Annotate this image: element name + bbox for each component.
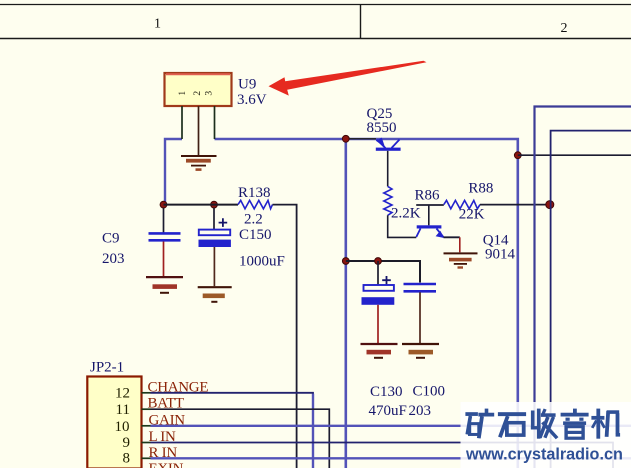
red annotation arrow bbox=[269, 61, 427, 96]
ground under C100 bbox=[402, 344, 439, 358]
U9 pin number 2 (rotated) bbox=[193, 91, 203, 96]
watermark chinese character shi bbox=[498, 412, 526, 437]
svg-text:2: 2 bbox=[193, 91, 203, 96]
svg-text:EXIN: EXIN bbox=[149, 461, 184, 468]
svg-text:C100: C100 bbox=[413, 384, 446, 400]
ground under U9 pin 2 bbox=[181, 156, 217, 171]
Q14 reference label bbox=[483, 233, 509, 249]
wire BATT net bbox=[151, 409, 330, 468]
svg-text:3.6V: 3.6V bbox=[237, 92, 267, 108]
U9 pin 1 lead bbox=[181, 106, 183, 139]
svg-text:U9: U9 bbox=[238, 77, 256, 93]
svg-text:12: 12 bbox=[115, 386, 130, 402]
capacitor C9 plates bbox=[149, 208, 181, 276]
JP2 pin number 11 bbox=[116, 402, 130, 418]
wire: R88 right lead to rail bbox=[480, 204, 551, 206]
wire: U9 pin1 to left rail corner bbox=[165, 139, 182, 203]
capacitor C100 plates bbox=[404, 284, 437, 343]
U9 value label 3.6V bbox=[237, 92, 267, 108]
svg-text:L IN: L IN bbox=[149, 429, 176, 445]
svg-text:R IN: R IN bbox=[149, 445, 178, 461]
svg-text:C150: C150 bbox=[239, 227, 272, 243]
net label CHANGE bbox=[148, 379, 209, 395]
svg-text:1000uF: 1000uF bbox=[239, 254, 285, 270]
Q25 reference label bbox=[367, 106, 393, 122]
C100 value label 203 bbox=[409, 403, 432, 419]
junction dot C150 bbox=[211, 201, 218, 208]
svg-text:203: 203 bbox=[102, 251, 125, 267]
svg-text:2: 2 bbox=[561, 21, 568, 36]
U9 pin 2 lead bbox=[198, 106, 200, 155]
U9 pin 3 lead bbox=[214, 106, 216, 139]
title border top line bbox=[0, 4, 631, 6]
svg-text:9: 9 bbox=[123, 435, 131, 451]
C150 value label 1000uF bbox=[239, 254, 285, 270]
svg-text:470uF: 470uF bbox=[369, 403, 407, 419]
R86 value label 2.2K bbox=[391, 206, 421, 222]
wire: R138 to vertical drop bbox=[273, 205, 297, 468]
C150 reference label bbox=[239, 227, 272, 243]
wire GAIN net bbox=[151, 425, 631, 427]
U9 pin number 3 (rotated) bbox=[205, 91, 215, 96]
svg-text:8: 8 bbox=[123, 450, 131, 466]
U9 reference label bbox=[238, 77, 256, 93]
wire: R88 left lead bbox=[416, 204, 444, 206]
ground under C150 bbox=[198, 287, 232, 302]
C130 reference label bbox=[370, 384, 403, 400]
junction dot on +V rail tap bbox=[514, 152, 521, 159]
ground under Q14 bbox=[444, 253, 478, 268]
JP2 pin number 12 bbox=[115, 386, 130, 402]
svg-text:www.crystalradio.cn: www.crystalradio.cn bbox=[465, 446, 623, 464]
C130 value label 470uF bbox=[369, 403, 407, 419]
svg-text:11: 11 bbox=[116, 402, 130, 418]
R138 value label 2.2 bbox=[244, 212, 263, 228]
svg-text:203: 203 bbox=[409, 403, 432, 419]
wire: vertical rail from Q25 node down bbox=[344, 139, 347, 468]
watermark chinese character ji bbox=[591, 409, 620, 439]
wire: U9 pin3 to right, main +V rail bbox=[215, 139, 518, 468]
junction dot left rail / C9 bbox=[160, 201, 167, 208]
JP2 pin 9 stub bbox=[142, 442, 151, 444]
R88 reference label bbox=[468, 180, 493, 196]
Q25 base lead wire bbox=[387, 151, 389, 187]
wire CHANGE net bbox=[151, 393, 314, 468]
resistor R86 2.2K (vertical zigzag) bbox=[384, 186, 392, 215]
svg-text:2.2: 2.2 bbox=[244, 212, 263, 228]
net label EXIN (clipped) bbox=[149, 461, 184, 468]
net label L IN bbox=[149, 429, 176, 445]
C9 value label 203 bbox=[102, 251, 125, 267]
JP2 pin number 9 bbox=[123, 435, 131, 451]
svg-text:JP2-1: JP2-1 bbox=[90, 360, 124, 376]
R86 reference label bbox=[415, 188, 441, 204]
C100 reference label bbox=[413, 384, 446, 400]
title border bottom line bbox=[0, 38, 631, 40]
JP2 pin 12 stub bbox=[142, 392, 151, 394]
svg-text:C130: C130 bbox=[370, 384, 403, 400]
net label BATT bbox=[148, 396, 184, 412]
svg-text:8550: 8550 bbox=[367, 120, 397, 136]
wire: tap to right edge bbox=[518, 154, 631, 156]
R88 value label 22K bbox=[459, 207, 485, 223]
svg-text:BATT: BATT bbox=[148, 396, 184, 412]
svg-text:C9: C9 bbox=[102, 230, 120, 246]
svg-text:22K: 22K bbox=[459, 207, 485, 223]
svg-text:GAIN: GAIN bbox=[149, 413, 186, 429]
junction on rail at R88 bbox=[546, 201, 554, 209]
JP2 pin number 8 bbox=[123, 450, 131, 466]
transistor Q14 (NPN 9014) bbox=[416, 225, 444, 238]
C9 reference label bbox=[102, 230, 120, 246]
watermark URL text bbox=[465, 446, 623, 464]
zone number 1 bbox=[154, 17, 161, 32]
JP2-1 reference label bbox=[90, 360, 124, 376]
CHANGE vertical drop (thick) bbox=[312, 394, 314, 468]
wire L IN net bbox=[151, 443, 614, 468]
wire: right rail 2 bbox=[535, 107, 631, 468]
wire: R86 bottom to Q14 collector bbox=[388, 215, 417, 237]
ground under C130 bbox=[361, 344, 398, 358]
svg-text:R138: R138 bbox=[238, 185, 271, 201]
U9 pin number 1 (rotated) bbox=[178, 91, 188, 96]
watermark chinese character yin bbox=[561, 409, 589, 439]
watermark chinese character shou bbox=[531, 409, 557, 439]
U9 regulator body bbox=[165, 73, 232, 106]
wire R IN net bbox=[151, 457, 631, 459]
JP2 pin 10 stub bbox=[142, 425, 151, 427]
svg-text:1: 1 bbox=[154, 17, 161, 32]
resistor R138 2.2 (horizontal zigzag) bbox=[238, 200, 273, 208]
svg-text:3: 3 bbox=[205, 91, 215, 96]
JP2 pin number 10 bbox=[115, 419, 130, 435]
Q25 emitter pin lead bbox=[346, 138, 376, 140]
watermark panel bbox=[461, 402, 631, 468]
R138 reference label bbox=[238, 185, 271, 201]
svg-text:10: 10 bbox=[115, 419, 130, 435]
junction dot on rail for C130 bbox=[342, 258, 349, 265]
wire: node to R138 bbox=[164, 204, 239, 206]
svg-text:9014: 9014 bbox=[485, 247, 516, 263]
connector JP2 body bbox=[87, 377, 141, 468]
net label GAIN bbox=[149, 413, 186, 429]
ground under C9 bbox=[146, 277, 183, 293]
wire: right rail 3 bbox=[551, 131, 631, 468]
JP2 pin 8 stub bbox=[142, 457, 151, 459]
net label R IN bbox=[149, 445, 178, 461]
wire: rail to C130/C100 bbox=[346, 261, 420, 283]
svg-text:R86: R86 bbox=[415, 188, 441, 204]
title border divider bbox=[360, 5, 362, 39]
Q14 value label 9014 bbox=[485, 247, 516, 263]
svg-text:2.2K: 2.2K bbox=[391, 206, 421, 222]
capacitor C150 (electrolytic) bbox=[199, 208, 231, 286]
JP2 pin 11 stub bbox=[142, 408, 151, 410]
wire: Q14 emitter to ground bbox=[444, 237, 460, 252]
junction dot at Q25 emitter rail bbox=[342, 135, 349, 142]
Q25 value label 8550 bbox=[367, 120, 397, 136]
svg-text:CHANGE: CHANGE bbox=[148, 379, 209, 395]
watermark chinese character kuang bbox=[465, 409, 494, 439]
svg-text:R88: R88 bbox=[468, 180, 493, 196]
capacitor C130 (electrolytic) bbox=[362, 261, 395, 343]
transistor Q25 (PNP 8550) bbox=[376, 138, 401, 151]
Q14 base lead bbox=[428, 205, 430, 225]
resistor R88 22K (horizontal zigzag) bbox=[444, 200, 480, 208]
zone number 2 bbox=[561, 21, 568, 36]
svg-text:1: 1 bbox=[178, 91, 188, 96]
junction dot C130 bbox=[375, 258, 382, 265]
